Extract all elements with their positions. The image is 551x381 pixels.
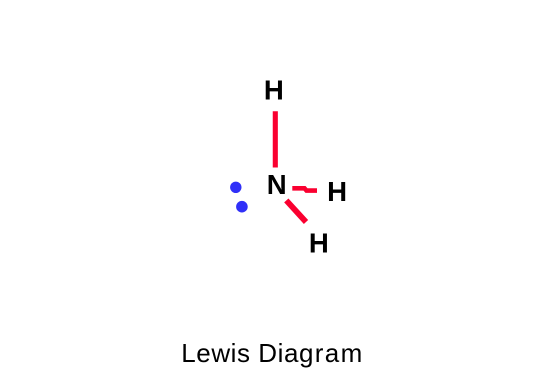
svg-text:N: N: [267, 169, 287, 200]
bond N-H vertical: [273, 111, 278, 167]
svg-text:H: H: [327, 176, 347, 207]
lone pair dot upper: [230, 182, 241, 193]
lone pair dot lower: [236, 201, 248, 213]
svg-text:Lewis Diagram: Lewis Diagram: [181, 338, 363, 368]
svg-text:H: H: [309, 227, 329, 258]
bond N-H horizontal: [292, 188, 317, 190]
svg-text:H: H: [264, 74, 284, 105]
bond N-H diagonal: [286, 200, 306, 222]
